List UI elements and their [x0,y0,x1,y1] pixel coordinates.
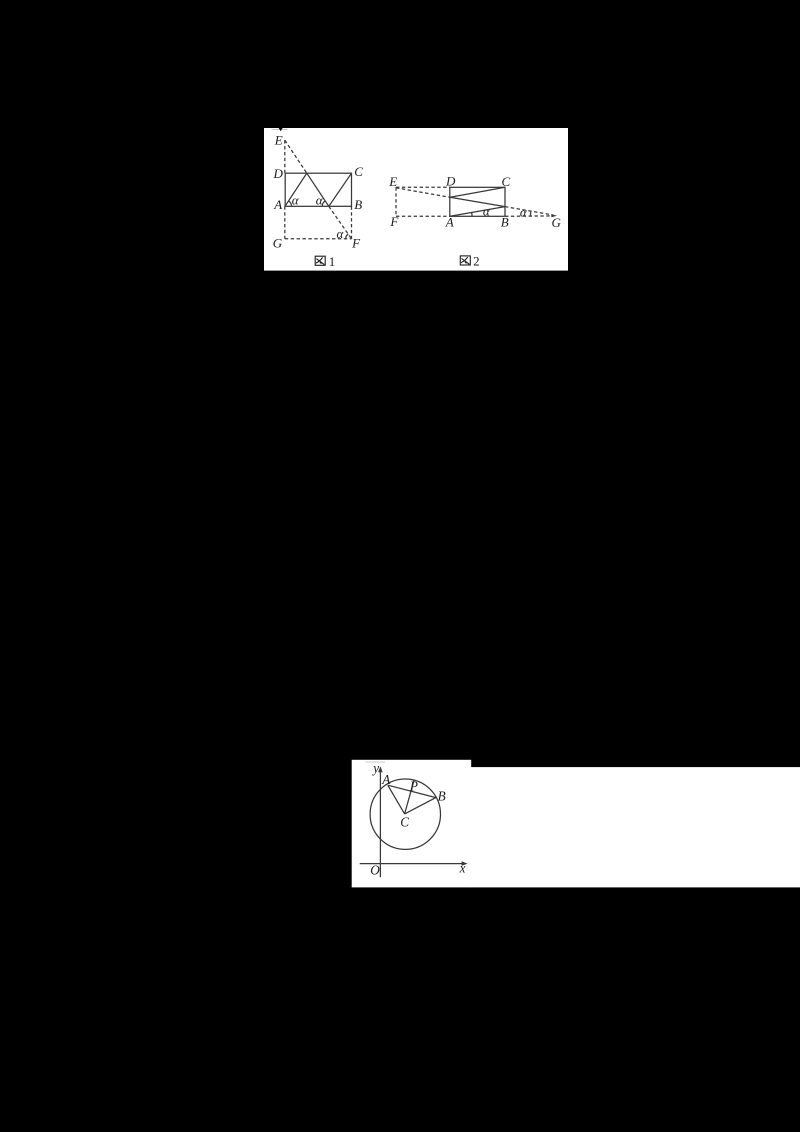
svg-text:B: B [438,788,446,803]
fig1 dashed vertical BF [351,206,353,239]
cropped arrow top [279,128,283,131]
svg-text:1: 1 [329,254,336,269]
svg-text:F: F [351,235,361,250]
svg-text:E: E [388,174,397,189]
svg-text:y: y [371,760,379,775]
fig2 dashed slanted PG [505,207,554,216]
cropped line remnant panel2 [366,761,386,762]
fig1 dashed vertical AG [284,206,286,239]
fig2 fold line AP [450,207,505,217]
fig2 angle arc at A [471,213,473,217]
caption tu1 glyph [315,256,325,265]
fig1 angle arc at F [346,234,349,239]
fig2 dashed horizontal BG [505,215,552,217]
panel 2 background left [352,760,472,888]
svg-text:2: 2 [473,253,480,268]
svg-text:C: C [354,164,363,179]
svg-text:O: O [370,862,380,877]
svg-text:α: α [316,192,324,207]
svg-text:C: C [502,174,511,189]
fig2 arrowhead at G [551,214,557,217]
svg-text:α: α [337,226,345,241]
caption tu2 glyph [460,256,470,265]
fig1 rectangle ABCD [285,173,351,206]
fig3 radius CP [405,780,415,814]
fig1 dashed horizontal GF [285,238,352,240]
svg-text:F: F [389,214,399,229]
svg-text:D: D [445,174,456,189]
fig3 y axis arrowhead [378,766,383,772]
fig3 chord AB [388,785,436,797]
fig2 angle arc at G [529,211,531,216]
cropped line remnant top [272,129,288,130]
svg-text:E: E [274,133,283,148]
fig1 fold line AM [285,173,307,206]
fig2 dashed slanted EM [396,188,450,198]
fig3 y axis [379,771,381,878]
fig1 dashed vertical ED [284,140,286,173]
panel 2 background right band [471,767,800,887]
fig2 dashed vertical EF [395,187,397,216]
panel 1 background [264,128,568,271]
svg-text:D: D [273,166,284,181]
fig2 dashed horizontal ED [396,186,450,188]
svg-text:C: C [400,815,409,830]
svg-text:α: α [520,205,528,220]
fig1 fold line MN [307,173,329,206]
svg-text:A: A [273,197,282,212]
svg-text:α: α [483,204,491,219]
fig1 dashed segment NF [329,206,352,239]
fig1 fold line NC [329,173,352,206]
fig3 x axis [360,863,464,865]
fig3 radius CA [388,785,405,814]
svg-text:A: A [381,772,391,787]
fig1 dashed segment EM [285,140,307,173]
svg-text:B: B [501,215,509,230]
svg-text:B: B [354,197,362,212]
fig2 fold line MC [450,187,505,197]
svg-text:G: G [552,215,562,230]
fig2 rectangle ABCD [450,187,505,216]
svg-text:x: x [459,861,466,876]
fig1 angle arc at A [289,201,292,206]
svg-text:P: P [409,778,418,793]
fig2 fold line MP [450,197,505,206]
svg-text:α: α [292,192,300,207]
fig2 dashed horizontal FA [396,215,450,217]
svg-text:G: G [273,236,283,251]
fig3 x axis arrowhead [462,861,468,866]
fig1 angle arc at N [322,201,325,206]
fig3 circle [370,779,440,849]
fig3 radius CB [405,798,436,814]
svg-text:A: A [445,214,454,229]
